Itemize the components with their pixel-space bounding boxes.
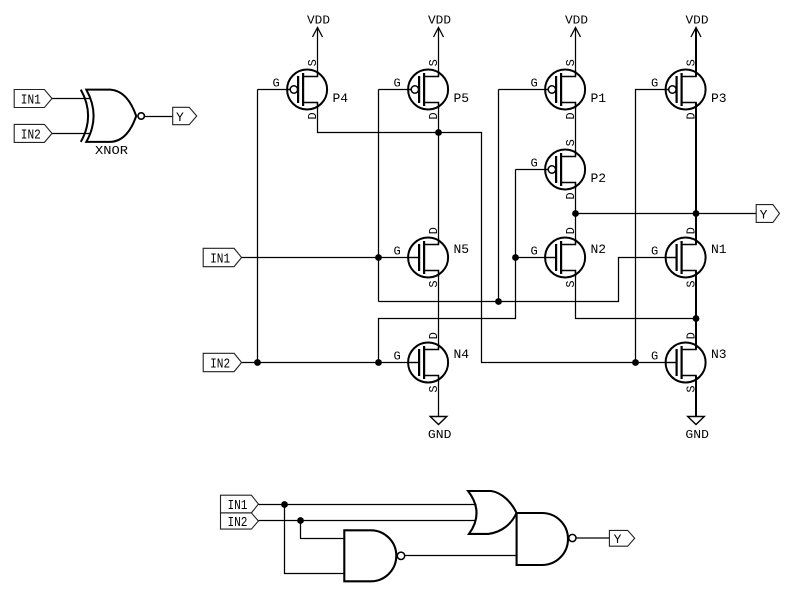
wire node A: P4/P5 drains to N3 gate (318, 103, 677, 363)
svg-text:IN2: IN2 (210, 356, 230, 372)
svg-text:D: D (684, 112, 698, 119)
wire P1 drain to P2 source (575, 103, 577, 157)
wire IN1 to XNOR input (52, 98, 91, 100)
output flag Y (transistor section) (756, 205, 779, 223)
svg-text:S: S (427, 59, 441, 66)
wire IN2 to OR gate (258, 520, 476, 522)
junction P1 gate riser (495, 298, 502, 305)
wire net IN2 horizontal (242, 362, 419, 364)
svg-text:S: S (684, 59, 698, 66)
svg-text:S: S (427, 280, 441, 287)
svg-text:S: S (684, 385, 698, 392)
svg-text:XNOR: XNOR (95, 144, 128, 158)
wire NAND1 output to NAND2 (405, 555, 517, 557)
wire IN1 branch to NAND1 (285, 505, 345, 574)
wire N2 source to N1 source (576, 271, 697, 319)
svg-text:P1: P1 (591, 91, 607, 106)
svg-text:G: G (651, 245, 658, 259)
svg-text:G: G (651, 350, 658, 364)
wire P4 gate (258, 89, 291, 91)
NAND gate U2 (344, 530, 404, 581)
power VDD symbol (686, 14, 709, 77)
wire IN2 to XNOR input (52, 133, 91, 135)
svg-text:G: G (530, 77, 537, 91)
svg-text:VDD: VDD (307, 14, 330, 28)
transistor N4 (N-MOSFET) (393, 332, 469, 392)
svg-text:D: D (306, 112, 320, 119)
svg-text:P2: P2 (591, 171, 607, 186)
svg-text:N3: N3 (711, 347, 727, 362)
wire P2 drain to N2 drain (575, 183, 577, 245)
wire P1 gate (499, 89, 549, 91)
junction IN2 / P4-gate riser (254, 359, 261, 366)
NAND gate U4 (517, 513, 576, 565)
svg-text:D: D (564, 112, 578, 119)
svg-text:G: G (272, 77, 279, 91)
input flag IN2 (transistor section) (203, 353, 241, 372)
svg-text:D: D (427, 112, 441, 119)
input flag IN1 (gate section) (221, 495, 259, 514)
svg-text:S: S (564, 59, 578, 66)
wire net IN2 riser to P4 gate (257, 90, 259, 363)
wire N5 source to N4 drain (438, 271, 440, 350)
XNOR gate U1 (81, 90, 145, 158)
wire N1 source to N3 drain (695, 271, 697, 350)
svg-text:IN1: IN1 (21, 92, 41, 108)
svg-text:N1: N1 (711, 242, 727, 257)
svg-text:IN2: IN2 (21, 127, 41, 143)
junction IN1 / P5-gate riser (375, 254, 382, 261)
svg-text:GND: GND (685, 428, 709, 442)
wire N2 gate (516, 257, 557, 259)
svg-text:N2: N2 (591, 242, 607, 257)
junction P2 drain / net Y (572, 210, 579, 217)
junction P5 drain / node A (435, 129, 442, 136)
svg-text:S: S (684, 280, 698, 287)
input flag IN2 (14, 124, 52, 143)
wire NAND2 output to Y (576, 537, 609, 539)
wire net IN1 horizontal (242, 257, 419, 259)
output flag Y (gate section) (609, 530, 634, 547)
svg-text:D: D (564, 192, 578, 199)
power VDD symbol (565, 14, 588, 77)
svg-text:G: G (530, 245, 537, 259)
ground GND symbol (685, 376, 709, 442)
wire net IN2 riser to P2/N2 gates (379, 170, 516, 363)
transistor N2 (N-MOSFET) (530, 227, 606, 287)
junction N2 gate (512, 254, 519, 261)
svg-text:G: G (393, 245, 400, 259)
wire IN2 branch to NAND1 (301, 521, 345, 539)
power VDD symbol (428, 14, 451, 77)
svg-text:D: D (564, 227, 578, 234)
junction P3 gate riser / N3 gate (632, 359, 639, 366)
output flag Y (173, 107, 197, 125)
svg-text:P4: P4 (333, 91, 349, 106)
svg-text:S: S (564, 280, 578, 287)
wire XNOR output to Y (144, 116, 172, 118)
power VDD symbol (307, 14, 330, 77)
svg-text:D: D (427, 227, 441, 234)
svg-text:S: S (427, 385, 441, 392)
svg-text:IN2: IN2 (227, 515, 247, 531)
svg-text:D: D (684, 227, 698, 234)
svg-text:G: G (651, 77, 658, 91)
svg-text:Y: Y (176, 110, 184, 125)
wire P3 drain to N1 drain (695, 103, 697, 245)
wire IN1 to OR gate (258, 504, 476, 506)
svg-text:N5: N5 (454, 242, 470, 257)
junction N1 drain / net Y (693, 210, 700, 217)
wire net IN1 riser to P5 gate (378, 90, 380, 302)
svg-text:S: S (564, 139, 578, 146)
svg-text:Y: Y (760, 207, 768, 222)
svg-text:D: D (684, 332, 698, 339)
svg-text:S: S (306, 59, 320, 66)
input flag IN1 (transistor section) (203, 248, 241, 267)
wire net IN1 riser to P1 gate (498, 90, 500, 302)
svg-text:G: G (393, 350, 400, 364)
OR gate U3 (468, 491, 516, 534)
svg-text:IN1: IN1 (210, 251, 230, 267)
svg-text:VDD: VDD (565, 14, 588, 28)
junction N2 source / N1 source (693, 315, 700, 322)
svg-text:Y: Y (614, 532, 622, 547)
transistor P5 (P-MOSFET) (393, 59, 469, 119)
wire P5 drain to N5 drain (438, 103, 440, 245)
junction IN1 branch (281, 501, 288, 508)
transistor N1 (N-MOSFET) (651, 227, 727, 287)
svg-text:P5: P5 (454, 91, 470, 106)
transistor P3 (P-MOSFET) (651, 59, 727, 119)
junction IN2 / P2-N2 riser (375, 359, 382, 366)
svg-text:GND: GND (428, 428, 452, 442)
wire net IN1 to N1 gate (379, 258, 677, 302)
input flag IN2 (gate section) (221, 513, 259, 531)
svg-text:VDD: VDD (428, 14, 451, 28)
svg-text:N4: N4 (454, 347, 470, 362)
transistor P2 (P-MOSFET) (530, 139, 606, 199)
svg-text:VDD: VDD (686, 14, 709, 28)
svg-text:D: D (427, 332, 441, 339)
svg-text:G: G (530, 157, 537, 171)
svg-text:IN1: IN1 (227, 498, 247, 514)
svg-text:G: G (393, 77, 400, 91)
wire node A riser to P3 gate (636, 90, 669, 363)
junction IN2 branch (297, 517, 304, 524)
transistor P1 (P-MOSFET) (530, 59, 606, 119)
transistor P4 (P-MOSFET) (272, 59, 348, 119)
wire net Y horizontal (576, 213, 757, 215)
ground GND symbol (428, 376, 452, 442)
svg-text:P3: P3 (711, 91, 727, 106)
transistor N5 (N-MOSFET) (393, 227, 469, 287)
wire P2 gate (516, 169, 549, 171)
input flag IN1 (14, 90, 52, 109)
transistor N3 (N-MOSFET) (651, 332, 727, 392)
wire P5 gate (379, 89, 412, 91)
